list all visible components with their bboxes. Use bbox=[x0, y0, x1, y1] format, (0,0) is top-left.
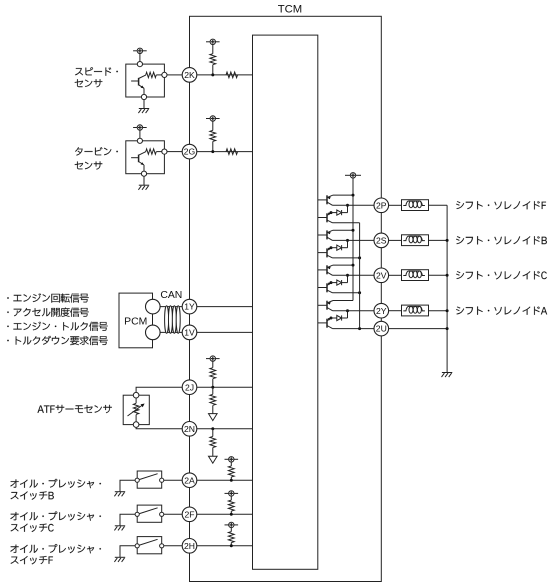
solenoid (C) bbox=[402, 270, 429, 281]
arrow to internal circuit (2J) bbox=[209, 414, 218, 421]
junction (2U collector bus) bbox=[358, 327, 361, 330]
junction (return bus 2Y) bbox=[446, 309, 449, 312]
terminal (top, turbine sensor) bbox=[137, 138, 142, 143]
junction (oil pressure switch C) bbox=[230, 513, 233, 516]
transistor (low side 2V) bbox=[318, 283, 333, 293]
terminal 1V bbox=[182, 325, 197, 340]
wire bbox=[212, 429, 214, 437]
power supply symbol (2G pull-up) bbox=[206, 116, 220, 121]
terminal 2P bbox=[374, 198, 389, 213]
label oil pressure switch C line2 bbox=[11, 524, 54, 532]
label CAN bbox=[160, 290, 182, 301]
pull-up resistor (2J) bbox=[210, 368, 216, 379]
resistor (2J lower) bbox=[210, 394, 216, 405]
wire bbox=[120, 480, 135, 492]
svg-text:1V: 1V bbox=[184, 328, 195, 338]
terminal (right, oil pressure switch B) bbox=[160, 478, 164, 482]
wire (1Y to block) bbox=[197, 306, 253, 308]
terminal (top, speed sensor) bbox=[137, 62, 142, 67]
series resistor (2G) bbox=[226, 149, 238, 155]
transistor (high side 2P) bbox=[318, 195, 353, 205]
transistor (high side 2S) bbox=[318, 230, 353, 240]
power rail bbox=[352, 178, 354, 301]
wire bbox=[212, 387, 214, 394]
terminal 2S bbox=[374, 233, 389, 248]
junction (emitter node 2V) bbox=[330, 281, 333, 284]
wire bbox=[139, 54, 141, 65]
pull-up resistor (2K) bbox=[210, 54, 216, 65]
collector bus wire bbox=[359, 223, 361, 329]
wire bbox=[230, 462, 232, 466]
wire (2K row) bbox=[197, 74, 253, 76]
solenoid (F) bbox=[402, 200, 429, 211]
svg-text:2J: 2J bbox=[185, 382, 194, 392]
terminal 2K bbox=[182, 68, 197, 83]
transistor (speed sensor) bbox=[131, 75, 146, 97]
transistor (low side 2P) bbox=[318, 213, 333, 223]
wire (2V to solenoid) bbox=[389, 274, 402, 276]
label oil pressure switch B line2 bbox=[11, 491, 54, 499]
wire bbox=[143, 100, 145, 109]
wire bbox=[429, 239, 448, 241]
junction (2J) bbox=[211, 386, 214, 389]
svg-text:2U: 2U bbox=[376, 324, 387, 334]
wire (collector 2V) bbox=[333, 292, 360, 294]
PCM box bbox=[119, 293, 153, 348]
junction (return bus 2U) bbox=[446, 327, 449, 330]
wire (1Y row) bbox=[160, 306, 182, 308]
junction (output node 2S) bbox=[346, 239, 349, 242]
terminal (output, speed sensor) bbox=[162, 72, 167, 77]
thermistor (ATF) bbox=[128, 398, 145, 422]
label speed sensor line1 bbox=[75, 67, 118, 75]
power supply symbol (speed sensor) bbox=[133, 48, 147, 53]
terminal 2N bbox=[182, 422, 197, 437]
svg-text:TCM: TCM bbox=[278, 3, 302, 15]
transistor (high side 2Y) bbox=[318, 301, 353, 311]
wire bbox=[164, 513, 182, 515]
svg-text:2F: 2F bbox=[184, 509, 194, 519]
pull-up resistor (oil pressure switch F) bbox=[228, 532, 234, 543]
pull-up resistor (oil pressure switch B) bbox=[228, 466, 234, 477]
power supply symbol (oil pressure switch F pull-up) bbox=[225, 522, 239, 527]
svg-text:2V: 2V bbox=[376, 270, 387, 280]
label turbine sensor line1 bbox=[75, 147, 118, 156]
terminal (bottom, speed sensor) bbox=[141, 94, 146, 99]
terminal (bottom, turbine sensor) bbox=[141, 171, 146, 176]
wire bbox=[197, 545, 253, 547]
junction (collector bus 2V) bbox=[358, 291, 361, 294]
label oil pressure switch B line1 bbox=[10, 479, 101, 488]
svg-text:2P: 2P bbox=[376, 200, 387, 210]
turbine sensor box bbox=[126, 141, 165, 174]
wire bbox=[212, 121, 214, 130]
power supply symbol (turbine sensor) bbox=[133, 125, 147, 130]
solenoid (B) bbox=[402, 235, 429, 246]
wire bbox=[212, 65, 214, 75]
wire bbox=[429, 274, 448, 276]
wire bbox=[429, 204, 448, 206]
label TCM bbox=[278, 3, 302, 15]
terminal (right, oil pressure switch C) bbox=[160, 512, 164, 516]
wire (2G row) bbox=[197, 151, 253, 153]
ground (oil pressure switch C) bbox=[114, 526, 125, 531]
wire (2N row) bbox=[197, 428, 253, 430]
wire bbox=[230, 528, 232, 532]
switch blade (oil pressure switch C) bbox=[140, 508, 158, 514]
power supply symbol (oil pressure switch C pull-up) bbox=[225, 491, 239, 496]
junction (output node 2Y) bbox=[346, 309, 349, 312]
wire (1V to block) bbox=[197, 331, 253, 333]
wire (2J row) bbox=[197, 386, 253, 388]
junction (return bus 2S) bbox=[446, 239, 449, 242]
label signal 4 bbox=[7, 336, 107, 345]
svg-text:2A: 2A bbox=[184, 475, 195, 485]
label シフト・ソレノイドC bbox=[456, 271, 547, 279]
terminal 2V bbox=[374, 268, 389, 283]
PCM terminal (CAN-L) bbox=[146, 325, 161, 340]
ground (turbine sensor) bbox=[138, 185, 149, 190]
wire (2U out) bbox=[389, 328, 448, 330]
label signal 3 bbox=[7, 322, 107, 331]
wire (output 2P) bbox=[333, 204, 375, 206]
transistor (low side 2S) bbox=[318, 248, 333, 258]
wire bbox=[164, 479, 182, 481]
wire bbox=[120, 514, 135, 526]
speed sensor box bbox=[126, 64, 165, 97]
wire (ATF to 2J) bbox=[136, 387, 182, 392]
switch blade (oil pressure switch F) bbox=[140, 539, 158, 545]
junction (emitter node 2P) bbox=[330, 211, 333, 214]
svg-text:2G: 2G bbox=[184, 147, 196, 157]
TCM inner block bbox=[253, 35, 318, 569]
terminal 2H bbox=[182, 539, 197, 554]
junction (oil pressure switch F) bbox=[230, 544, 233, 547]
wire bbox=[230, 543, 232, 546]
wire bbox=[167, 74, 182, 76]
diode (2S) bbox=[331, 240, 348, 250]
PCM terminal (CAN-H) bbox=[146, 299, 161, 314]
terminal 2Y bbox=[374, 303, 389, 318]
label シフト・ソレノイドF bbox=[456, 201, 546, 209]
terminal (ATF top) bbox=[133, 392, 139, 398]
junction (emitter node 2S) bbox=[330, 246, 333, 249]
wire (2S to solenoid) bbox=[389, 239, 402, 241]
power supply symbol (2J pull-up) bbox=[206, 356, 220, 361]
junction (collector bus 2S) bbox=[358, 256, 361, 259]
resistor (speed sensor) bbox=[146, 72, 157, 77]
junction (2K) bbox=[211, 73, 214, 76]
svg-text:2K: 2K bbox=[184, 70, 195, 80]
junction (emitter node 2Y) bbox=[330, 317, 333, 320]
ground (solenoid return) bbox=[442, 373, 453, 378]
terminal (left, oil pressure switch C) bbox=[135, 512, 139, 516]
terminal (left, oil pressure switch B) bbox=[135, 478, 139, 482]
terminal (output, turbine sensor) bbox=[162, 149, 167, 154]
wire (2U row) bbox=[333, 328, 375, 330]
solenoid (A) bbox=[402, 305, 429, 316]
label signal 2 bbox=[7, 308, 88, 317]
svg-text:1Y: 1Y bbox=[184, 302, 195, 312]
power supply symbol (solenoid drivers) bbox=[345, 173, 361, 178]
oil pressure switch B box bbox=[137, 471, 162, 488]
solenoid return bus bbox=[446, 205, 448, 372]
terminal 1Y bbox=[182, 299, 197, 314]
resistor (turbine sensor) bbox=[146, 149, 157, 154]
wire (1V row) bbox=[160, 331, 182, 333]
terminal (left, oil pressure switch F) bbox=[135, 544, 139, 548]
label シフト・ソレノイドA bbox=[456, 307, 547, 315]
junction (rail tap 2S) bbox=[352, 229, 355, 232]
CAN twisted pair bbox=[165, 306, 181, 334]
junction (output node 2V) bbox=[346, 274, 349, 277]
terminal (ATF bottom) bbox=[133, 422, 139, 428]
junction (oil pressure switch B) bbox=[230, 479, 233, 482]
wire bbox=[212, 405, 214, 413]
wire bbox=[212, 141, 214, 151]
wire bbox=[230, 511, 232, 514]
transistor (low side 2Y) bbox=[318, 318, 333, 329]
terminal 2A bbox=[182, 473, 197, 488]
wire (output 2S) bbox=[333, 239, 375, 241]
label oil pressure switch F line2 bbox=[11, 556, 53, 564]
wire bbox=[212, 361, 214, 367]
junction (rail tap 2V) bbox=[352, 264, 355, 267]
wire bbox=[167, 151, 182, 153]
series resistor (2K) bbox=[226, 72, 238, 78]
terminal 2J bbox=[182, 380, 197, 395]
pull-up resistor (oil pressure switch C) bbox=[228, 500, 234, 511]
diode (2P) bbox=[331, 205, 348, 215]
wire bbox=[156, 151, 162, 153]
svg-text:CAN: CAN bbox=[160, 290, 182, 301]
terminal 2U bbox=[374, 321, 389, 336]
wire bbox=[212, 379, 214, 387]
pull-up resistor (2G) bbox=[210, 130, 216, 141]
label シフト・ソレノイドB bbox=[456, 236, 547, 244]
diode (2V) bbox=[331, 275, 348, 285]
junction (return bus 2V) bbox=[446, 274, 449, 277]
junction (output node 2P) bbox=[346, 204, 349, 207]
wire bbox=[230, 496, 232, 500]
label turbine sensor line2 bbox=[75, 161, 103, 169]
wire (collector 2P) bbox=[333, 222, 360, 224]
transistor (high side 2V) bbox=[318, 265, 353, 275]
switch blade (oil pressure switch B) bbox=[140, 474, 158, 480]
diode (2Y) bbox=[331, 311, 348, 321]
label speed sensor line2 bbox=[75, 79, 103, 87]
wire (output 2V) bbox=[333, 274, 375, 276]
wire bbox=[212, 45, 214, 54]
junction (rail tap 2P) bbox=[352, 194, 355, 197]
ground (oil pressure switch F) bbox=[114, 557, 125, 562]
wire (ATF to 2N) bbox=[136, 427, 182, 428]
power supply symbol (oil pressure switch B pull-up) bbox=[225, 457, 239, 462]
label oil pressure switch F line1 bbox=[10, 544, 101, 553]
ground (speed sensor) bbox=[138, 109, 149, 114]
svg-text:2H: 2H bbox=[184, 541, 195, 551]
wire bbox=[197, 513, 253, 515]
junction (2G) bbox=[211, 150, 214, 153]
wire (collector 2S) bbox=[333, 257, 360, 259]
terminal (right, oil pressure switch F) bbox=[160, 544, 164, 548]
svg-text:2N: 2N bbox=[184, 424, 195, 434]
wire (2Y to solenoid) bbox=[389, 310, 402, 312]
oil pressure switch C box bbox=[137, 505, 162, 522]
wire bbox=[212, 448, 214, 457]
wire (2P to solenoid) bbox=[389, 204, 402, 206]
label signal 1 bbox=[7, 293, 88, 302]
junction (2N) bbox=[211, 427, 214, 430]
svg-text:PCM: PCM bbox=[124, 316, 147, 327]
wire bbox=[120, 546, 135, 558]
label ATF thermo sensor bbox=[38, 405, 112, 413]
wire bbox=[143, 176, 145, 185]
arrow to internal circuit (2N) bbox=[209, 456, 218, 463]
resistor (2N lower) bbox=[210, 437, 216, 448]
wire bbox=[164, 545, 182, 547]
ATF sensor box bbox=[123, 395, 149, 424]
wire bbox=[429, 310, 448, 312]
terminal 2F bbox=[182, 507, 197, 522]
svg-text:2S: 2S bbox=[376, 236, 387, 246]
transistor (turbine sensor) bbox=[131, 152, 146, 174]
terminal 2G bbox=[182, 144, 197, 159]
power supply symbol (2K pull-up) bbox=[206, 39, 220, 44]
TCM outer box bbox=[190, 16, 382, 581]
wire bbox=[197, 479, 253, 481]
label PCM bbox=[124, 316, 147, 327]
label oil pressure switch C line1 bbox=[10, 512, 101, 521]
wire (output 2Y) bbox=[333, 310, 375, 312]
wire bbox=[156, 74, 162, 76]
oil pressure switch F box bbox=[137, 537, 162, 554]
ground (oil pressure switch B) bbox=[114, 492, 125, 497]
wire bbox=[230, 477, 232, 480]
svg-text:2Y: 2Y bbox=[376, 306, 387, 316]
wire bbox=[139, 130, 141, 141]
